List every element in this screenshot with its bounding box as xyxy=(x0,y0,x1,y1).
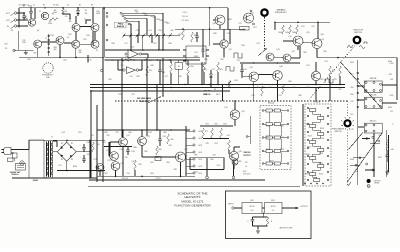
switch SW-power box xyxy=(13,153,18,161)
transformer leads xyxy=(46,141,53,178)
svg-text:R92: R92 xyxy=(104,173,107,175)
freq knob dashed shaft xyxy=(347,101,349,183)
svg-text:R60: R60 xyxy=(204,59,207,61)
svg-text:FUNCTION GENERATOR: FUNCTION GENERATOR xyxy=(174,204,211,208)
wire lw vert x388 xyxy=(388,135,390,172)
wire q6-q7 xyxy=(64,42,72,44)
svg-text:R83: R83 xyxy=(104,132,107,134)
svg-text:R49: R49 xyxy=(178,76,181,78)
svg-text:R29: R29 xyxy=(164,22,167,24)
transformer label xyxy=(33,179,39,182)
svg-text:Q15: Q15 xyxy=(306,32,309,34)
svg-text:Q13: Q13 xyxy=(276,49,279,51)
svg-text:R124: R124 xyxy=(319,174,323,176)
amp extra labels xyxy=(107,136,173,180)
svg-text:C16: C16 xyxy=(243,69,246,71)
wire bridge left xyxy=(53,151,57,153)
svg-text:R60: R60 xyxy=(203,69,206,71)
svg-text:C30: C30 xyxy=(131,161,134,163)
svg-text:C36: C36 xyxy=(163,136,166,138)
inset ground xyxy=(256,229,260,233)
wire lw y170 xyxy=(365,169,375,171)
wire lw y143 xyxy=(370,142,380,144)
svg-text:R80: R80 xyxy=(158,149,161,151)
svg-text:R116: R116 xyxy=(320,128,324,130)
wire q3-q4 link xyxy=(80,26,91,28)
wire mid bus C xyxy=(90,90,230,92)
attenuator A vert wires xyxy=(269,112,281,162)
op-amp IC3 xyxy=(123,67,139,78)
wire y29 bus xyxy=(175,28,245,30)
capacitor C2b xyxy=(22,13,26,20)
svg-text:C21: C21 xyxy=(164,76,167,78)
transistor Q12 xyxy=(240,10,255,30)
transistor Q15 xyxy=(293,36,303,46)
svg-text:2200: 2200 xyxy=(48,23,52,25)
svg-text:C6: C6 xyxy=(11,30,13,32)
wire sec top xyxy=(53,141,57,147)
svg-text:R79: R79 xyxy=(251,95,254,97)
phone jack symbol xyxy=(367,185,370,188)
svg-text:R105: R105 xyxy=(390,95,394,97)
attenuator B resistors xyxy=(310,109,324,182)
inset capacitor C50 xyxy=(247,217,254,226)
wire q27 emitter xyxy=(180,162,182,176)
wire power rails xyxy=(90,130,97,182)
svg-text:R110: R110 xyxy=(266,137,270,139)
svg-text:D2: D2 xyxy=(71,143,73,145)
svg-text:R68: R68 xyxy=(306,87,309,89)
wire mid bus A xyxy=(90,84,345,86)
wire opamp out xyxy=(142,54,148,58)
inset wire in xyxy=(234,207,242,209)
svg-text:R63: R63 xyxy=(234,80,237,82)
wire fan bus xyxy=(124,34,180,36)
wire q18 links xyxy=(315,62,317,85)
svg-text:R55: R55 xyxy=(108,79,111,81)
wire amp rail x97 xyxy=(96,105,98,182)
wire q4 collector xyxy=(92,8,94,24)
transistor Q25 xyxy=(111,162,120,171)
svg-text:R43: R43 xyxy=(136,76,139,78)
svg-text:R1: R1 xyxy=(23,6,25,8)
svg-text:R86: R86 xyxy=(163,132,166,134)
wire lw y165 xyxy=(350,164,360,166)
inset input label xyxy=(228,203,234,205)
power labels dark xyxy=(10,171,21,176)
transistor Q16 xyxy=(312,39,322,49)
svg-text:Q14: Q14 xyxy=(291,51,294,53)
labels amp xyxy=(93,135,187,165)
svg-text:R7: R7 xyxy=(85,10,87,12)
svg-text:INPUT: INPUT xyxy=(228,203,234,205)
svg-text:Q22: Q22 xyxy=(126,135,129,137)
wafer side stubs xyxy=(358,85,397,127)
transistor Q11 xyxy=(220,40,228,48)
wire q7-q8 xyxy=(80,43,91,45)
svg-text:METER FILTER: METER FILTER xyxy=(280,228,294,230)
svg-text:C47: C47 xyxy=(58,165,61,167)
transistor Q6 xyxy=(56,37,64,45)
svg-text:R71: R71 xyxy=(205,131,208,133)
svg-text:S2: S2 xyxy=(178,66,180,68)
wire q11 base xyxy=(213,43,220,45)
svg-text:R123: R123 xyxy=(305,174,309,176)
svg-text:Q15: Q15 xyxy=(288,36,291,38)
svg-text:Q24: Q24 xyxy=(106,150,109,152)
svg-text:R94: R94 xyxy=(166,162,169,164)
svg-text:R37: R37 xyxy=(153,43,156,45)
svg-text:R34: R34 xyxy=(158,30,161,32)
svg-text:R5: R5 xyxy=(65,11,67,13)
wire q3 collector xyxy=(38,16,95,57)
svg-text:1000: 1000 xyxy=(53,12,57,14)
svg-text:C48: C48 xyxy=(390,79,393,81)
inset junction xyxy=(253,213,268,217)
resistor R80 xyxy=(156,146,162,155)
resistor R72 xyxy=(211,128,214,138)
output level knob xyxy=(367,179,381,185)
wafer box W3 xyxy=(364,123,382,133)
range switch S1 fan xyxy=(120,12,163,35)
svg-text:R91: R91 xyxy=(78,132,81,134)
AC plug P1 xyxy=(2,148,12,155)
svg-text:C13 .1: C13 .1 xyxy=(183,12,188,14)
wire out block bottom xyxy=(190,169,224,171)
interlock box xyxy=(16,164,26,171)
variable frequency knob xyxy=(261,9,267,15)
resistor R65b xyxy=(261,84,285,96)
capacitor C36b xyxy=(158,130,162,146)
lw contacts xyxy=(355,136,380,171)
wire top supply bus xyxy=(19,8,228,30)
svg-text:R50: R50 xyxy=(323,51,326,53)
transistor Q19 xyxy=(249,72,259,82)
transistor Q18 xyxy=(311,71,320,80)
wire between boxes xyxy=(302,104,304,186)
svg-text:R44: R44 xyxy=(278,32,281,34)
svg-text:C45: C45 xyxy=(350,101,353,103)
svg-text:IC3: IC3 xyxy=(130,76,133,78)
svg-text:C8: C8 xyxy=(5,48,7,50)
svg-text:R100: R100 xyxy=(73,166,77,168)
svg-text:Q12: Q12 xyxy=(250,13,254,15)
svg-text:Q19: Q19 xyxy=(249,67,252,69)
labels right box xyxy=(301,26,314,28)
wire plug leads xyxy=(11,150,29,154)
svg-text:425 SINE WAVE: 425 SINE WAVE xyxy=(137,97,152,100)
wire bottom bus B xyxy=(88,185,300,187)
wafer box W2 xyxy=(364,97,382,108)
svg-text:D4: D4 xyxy=(71,159,73,161)
svg-text:C32: C32 xyxy=(115,132,118,134)
svg-text:VCO: VCO xyxy=(6,20,11,22)
capacitor C10 xyxy=(195,32,199,42)
svg-text:R28: R28 xyxy=(156,19,159,21)
svg-text:C9: C9 xyxy=(67,37,69,39)
label att A xyxy=(268,102,275,105)
wire x209 down xyxy=(203,29,230,57)
wafer box W1 xyxy=(364,81,382,92)
wire amp top xyxy=(97,129,190,131)
inset output label xyxy=(300,206,308,208)
svg-text:C12: C12 xyxy=(162,72,165,74)
svg-text:DIAL: DIAL xyxy=(46,76,50,79)
transistor Q24 xyxy=(110,152,119,161)
svg-text:R90: R90 xyxy=(96,144,99,146)
wire bridge top xyxy=(66,140,68,142)
function switch dashed link xyxy=(309,46,355,100)
ground wafer xyxy=(385,170,389,174)
svg-text:R41: R41 xyxy=(242,29,245,31)
svg-text:C31: C31 xyxy=(278,95,281,97)
svg-text:C14: C14 xyxy=(148,30,151,32)
svg-text:R39: R39 xyxy=(111,60,114,62)
resistor R61 xyxy=(217,62,220,85)
inset wire mid xyxy=(262,207,265,209)
IC U1 xyxy=(183,46,209,64)
extra osc wires xyxy=(63,14,91,24)
svg-text:R64: R64 xyxy=(303,52,306,54)
svg-text:Q20: Q20 xyxy=(279,66,282,68)
svg-text:R97: R97 xyxy=(350,114,353,116)
svg-text:R52: R52 xyxy=(332,70,335,72)
shaper switch arrow xyxy=(148,95,164,103)
transistor Q7 xyxy=(72,40,80,48)
svg-text:R76: R76 xyxy=(106,135,109,137)
svg-text:C5: C5 xyxy=(84,19,86,21)
wire q19 down xyxy=(253,82,255,101)
transistor Q23 xyxy=(138,137,147,146)
wire x209 vert xyxy=(209,8,211,29)
wafer rail contacts xyxy=(357,72,359,108)
resistor R86b xyxy=(167,134,170,144)
svg-text:R104: R104 xyxy=(388,61,392,63)
svg-text:C51: C51 xyxy=(354,171,357,173)
wafer col right labels xyxy=(390,63,395,126)
bridge rectifier D1-D4 xyxy=(57,142,76,161)
output amp Q28 xyxy=(232,159,238,165)
svg-text:R16: R16 xyxy=(86,35,89,37)
transistor Q10 xyxy=(215,15,225,25)
wire q26 em xyxy=(99,172,101,177)
wire q7 emitter xyxy=(75,48,77,57)
svg-text:R42: R42 xyxy=(161,60,164,62)
left of attA wire xyxy=(246,116,250,144)
svg-text:R119: R119 xyxy=(307,147,311,149)
svg-text:R82: R82 xyxy=(298,95,301,97)
svg-text:C29: C29 xyxy=(131,94,134,96)
svg-text:C40: C40 xyxy=(86,142,89,144)
svg-text:R114: R114 xyxy=(270,161,274,163)
resistor R90 xyxy=(92,142,95,152)
wire bus y60 xyxy=(105,59,200,60)
svg-text:R77: R77 xyxy=(93,159,96,161)
transistor Q21 xyxy=(230,110,240,120)
svg-text:R17: R17 xyxy=(83,39,86,41)
svg-text:R73: R73 xyxy=(223,124,226,126)
wire q21 bottom xyxy=(234,120,236,127)
terminal strip TS1 xyxy=(48,34,50,56)
svg-text:C49: C49 xyxy=(350,129,353,131)
svg-text:R61: R61 xyxy=(220,59,223,61)
transistor Q1 xyxy=(28,19,35,26)
labels wafer col xyxy=(350,74,353,116)
wire q21 top xyxy=(234,101,236,110)
op-amp IC1 xyxy=(125,47,142,59)
attenuator dashed box B xyxy=(305,104,331,186)
svg-text:SW1-2A: SW1-2A xyxy=(370,77,377,80)
inset resistor block R101 xyxy=(242,200,262,214)
svg-text:C16: C16 xyxy=(236,60,239,62)
transistor Q5 xyxy=(34,40,42,48)
svg-text:C17: C17 xyxy=(124,43,127,45)
svg-text:330: 330 xyxy=(79,52,82,54)
inset frame xyxy=(226,191,312,239)
svg-text:R122: R122 xyxy=(319,163,323,165)
svg-text:Q23: Q23 xyxy=(146,136,149,138)
wire lw vert x374 xyxy=(373,133,375,177)
wire row y50 xyxy=(105,49,180,51)
wire q19-q20 xyxy=(259,74,273,76)
wire y146 seg xyxy=(104,146,132,148)
svg-text:C20: C20 xyxy=(311,26,314,28)
svg-text:R75: R75 xyxy=(118,94,121,96)
wire bottom bus A xyxy=(89,179,265,181)
capacitor C41 xyxy=(79,155,85,163)
resistor R71 xyxy=(202,128,208,138)
svg-text:C42: C42 xyxy=(90,135,93,137)
wire right rail x397 xyxy=(396,58,398,100)
wire power bottom A xyxy=(57,170,105,172)
resistor R98 xyxy=(386,140,389,150)
svg-text:C34: C34 xyxy=(148,132,151,134)
svg-text:R121: R121 xyxy=(306,154,310,156)
svg-text:C7: C7 xyxy=(45,38,47,40)
svg-text:R77 47: R77 47 xyxy=(107,160,112,162)
svg-text:LEVEL: LEVEL xyxy=(374,183,379,185)
svg-text:R19: R19 xyxy=(27,59,30,61)
svg-text:C26 .05: C26 .05 xyxy=(204,91,210,93)
wire fan down1 xyxy=(142,35,144,50)
svg-text:C13: C13 xyxy=(135,30,138,32)
svg-text:R85: R85 xyxy=(210,159,213,161)
wire amp bottom xyxy=(97,176,195,178)
capacitor C46 xyxy=(386,150,390,162)
squarewave glyph B xyxy=(325,79,333,83)
labels q21 xyxy=(224,107,244,113)
input terminal circles xyxy=(6,12,17,28)
attenuator B contacts xyxy=(307,107,329,181)
svg-text:Q11: Q11 xyxy=(228,49,231,51)
svg-text:R26: R26 xyxy=(142,13,145,15)
svg-text:R68 500: R68 500 xyxy=(244,152,251,154)
resistor R5 xyxy=(62,9,68,15)
wire to transformer xyxy=(28,140,30,150)
wire q22-q24 xyxy=(110,142,119,156)
capacitor C1 xyxy=(29,9,33,19)
series resistor R30 xyxy=(122,57,132,62)
svg-text:D1: D1 xyxy=(61,143,63,145)
wire wafer rail xyxy=(357,60,359,185)
transformer T1 windings xyxy=(46,143,53,175)
svg-text:R74: R74 xyxy=(214,143,217,145)
wire x122 long xyxy=(121,58,123,137)
svg-text:SWITCH: SWITCH xyxy=(354,32,362,34)
svg-text:OUTPUT: OUTPUT xyxy=(300,206,308,208)
relay box K1 xyxy=(175,63,183,70)
wire power bottom B xyxy=(12,177,97,179)
wire x330 down xyxy=(330,76,340,85)
svg-text:R93: R93 xyxy=(150,173,153,175)
svg-text:D3: D3 xyxy=(61,159,63,161)
left of attA labels xyxy=(243,152,251,168)
svg-text:D5: D5 xyxy=(214,89,216,91)
input arrows xyxy=(11,14,15,29)
svg-text:R107: R107 xyxy=(378,157,382,159)
capacitor C35b xyxy=(126,147,130,156)
wire right box left xyxy=(274,22,276,30)
svg-text:C4: C4 xyxy=(65,16,67,18)
svg-text:R70: R70 xyxy=(224,107,227,109)
svg-text:C17: C17 xyxy=(268,87,271,89)
rail contact xyxy=(101,69,104,72)
wire top power bus xyxy=(29,140,105,142)
capacitor C12 xyxy=(158,67,165,77)
svg-text:Q25: Q25 xyxy=(120,163,123,165)
svg-text:R3: R3 xyxy=(43,5,45,7)
svg-text:C1: C1 xyxy=(33,5,35,7)
square wave glyph A xyxy=(234,53,242,58)
svg-text:4700: 4700 xyxy=(201,51,205,53)
wafer W2 contacts xyxy=(365,98,382,108)
svg-text:R35: R35 xyxy=(170,30,173,32)
transistor Q8 xyxy=(91,40,99,48)
svg-text:R99: R99 xyxy=(238,161,241,163)
diode ZD1 xyxy=(77,9,80,17)
transistor Q4 xyxy=(91,24,99,32)
transistor Q22 xyxy=(119,138,128,147)
svg-text:C23: C23 xyxy=(256,43,259,45)
svg-text:50/60 Hz: 50/60 Hz xyxy=(11,174,18,176)
transformer primary box xyxy=(29,140,44,178)
resistor R73 xyxy=(220,128,223,138)
wiper diagonal 1 xyxy=(340,62,382,109)
svg-text:54-941: 54-941 xyxy=(33,179,39,182)
transformer core xyxy=(46,141,52,177)
wire right box top xyxy=(274,22,330,24)
svg-text:C41: C41 xyxy=(86,154,89,156)
labels osc row2 xyxy=(4,35,86,61)
fuse box F1 xyxy=(8,158,14,162)
svg-text:680: 680 xyxy=(54,49,57,51)
svg-text:R96: R96 xyxy=(350,87,353,89)
wiper diagonal 2 xyxy=(347,132,382,182)
svg-text:C44: C44 xyxy=(194,172,197,174)
svg-text:R112: R112 xyxy=(266,149,270,151)
resistor R44 xyxy=(282,25,285,34)
wire q15 base row xyxy=(283,40,293,42)
wire center left double rail xyxy=(103,8,105,130)
svg-text:R56: R56 xyxy=(228,19,231,21)
wire fan stubs xyxy=(130,35,159,50)
fan wire labels xyxy=(136,12,189,25)
svg-text:R81: R81 xyxy=(150,162,153,164)
svg-text:R58: R58 xyxy=(241,45,244,47)
svg-text:FREQUENCY: FREQUENCY xyxy=(275,12,288,14)
wire out block top xyxy=(190,157,224,159)
wire shield dashed bus xyxy=(115,100,348,102)
